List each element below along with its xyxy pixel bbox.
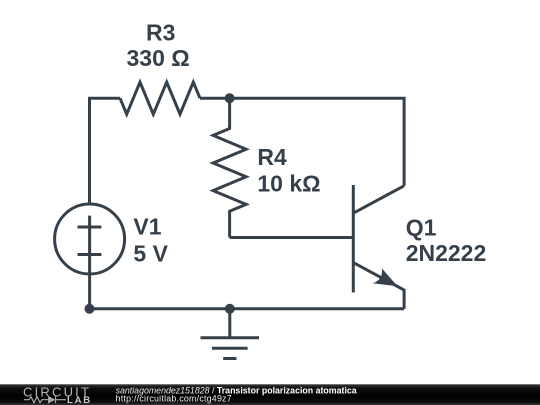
node junction dot: ground tap on bottom rail (225, 304, 235, 314)
svg-text:330 Ω: 330 Ω (127, 45, 190, 71)
svg-text:Q1: Q1 (406, 215, 437, 241)
voltage source V1: upper plate bar (78, 226, 102, 229)
node junction dot: V1 bottom rail corner (85, 304, 95, 314)
resistor R4 (with vertical leads) (213, 98, 246, 237)
transistor Q1 base bar (352, 185, 355, 293)
transistor Q1 collector diagonal (353, 186, 404, 213)
svg-text:5 V: 5 V (133, 240, 168, 266)
wire: bottom rail from V1 bottom corner to Q1 emitter (90, 307, 405, 310)
wire: top rail from V1 top terminal up and right to R3 left lead (90, 98, 121, 204)
ground bar 3 (223, 357, 236, 360)
ground bar 1 (201, 336, 260, 339)
transistor Q1 emitter diagonal and wire down to bottom rail (353, 263, 404, 309)
svg-text:R4: R4 (257, 144, 287, 170)
wire: base wire from R4 bottom to Q1 base bar (230, 236, 354, 239)
voltage source V1: inner axis line down to bottom rail (88, 216, 91, 309)
voltage source V1: lower plate bar (78, 253, 102, 256)
footer logo diode triangle (48, 396, 56, 404)
wire: R3 right lead along top rail to collector corner, down to Q1 collector (200, 98, 404, 186)
ground symbol stem (228, 309, 231, 338)
footer logo resistor-diode glyph (24, 396, 66, 403)
voltage source V1: circle (55, 204, 125, 274)
ground bar 2 (212, 347, 248, 350)
svg-text:V1: V1 (133, 214, 161, 240)
node junction dot: R3/R4/collector rail (225, 93, 235, 103)
svg-text:2N2222: 2N2222 (406, 240, 487, 266)
transistor Q1 emitter arrowhead (373, 268, 398, 286)
resistor R3 (120, 82, 200, 114)
svg-text:LAB: LAB (67, 395, 92, 405)
footer bar (0, 384, 540, 405)
svg-text:R3: R3 (146, 20, 175, 46)
svg-text:10 kΩ: 10 kΩ (257, 171, 320, 197)
svg-text:http://circuitlab.com/ctg49z7: http://circuitlab.com/ctg49z7 (116, 393, 232, 403)
